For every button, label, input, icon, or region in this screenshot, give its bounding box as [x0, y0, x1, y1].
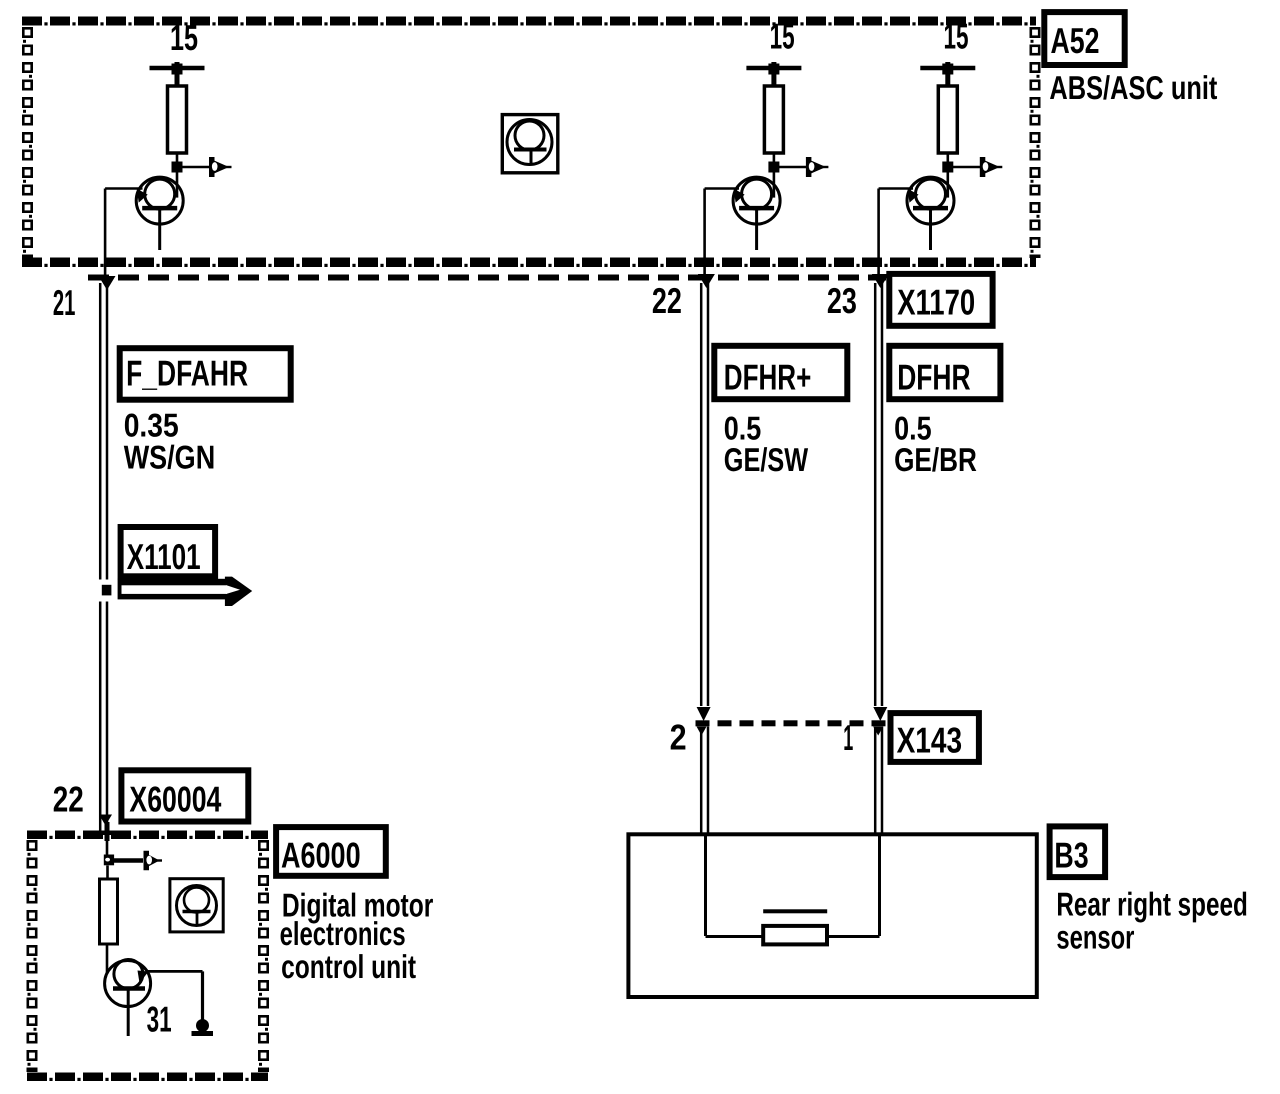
svg-text:DFHR: DFHR [897, 357, 970, 398]
svg-text:2: 2 [670, 717, 687, 758]
svg-text:22: 22 [652, 280, 682, 321]
svg-text:sensor: sensor [1056, 918, 1134, 955]
svg-text:Rear right speed: Rear right speed [1056, 885, 1247, 922]
svg-text:A52: A52 [1051, 20, 1100, 61]
svg-text:15: 15 [944, 16, 969, 57]
svg-text:B3: B3 [1054, 834, 1088, 875]
svg-text:15: 15 [170, 17, 198, 58]
svg-text:22: 22 [53, 779, 84, 820]
svg-text:X1101: X1101 [127, 536, 201, 577]
svg-text:A6000: A6000 [281, 835, 361, 876]
svg-text:WS/GN: WS/GN [124, 438, 216, 475]
svg-text:X60004: X60004 [129, 779, 221, 820]
svg-text:ABS/ASC unit: ABS/ASC unit [1049, 69, 1217, 106]
svg-text:control unit: control unit [281, 948, 416, 985]
svg-text:15: 15 [770, 16, 795, 57]
svg-text:31: 31 [147, 999, 172, 1040]
svg-text:electronics: electronics [280, 915, 406, 952]
svg-text:DFHR+: DFHR+ [724, 357, 812, 398]
svg-text:GE/SW: GE/SW [724, 441, 809, 478]
svg-text:1: 1 [843, 717, 853, 758]
svg-text:21: 21 [53, 282, 76, 323]
svg-text:23: 23 [827, 280, 857, 321]
svg-text:X1170: X1170 [897, 282, 975, 323]
svg-text:X143: X143 [897, 720, 963, 761]
svg-text:F_DFAHR: F_DFAHR [126, 353, 248, 394]
svg-text:GE/BR: GE/BR [894, 441, 977, 478]
